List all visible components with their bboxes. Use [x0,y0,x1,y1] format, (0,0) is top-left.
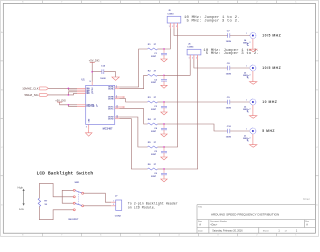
svg-text:1: 1 [246,33,247,35]
svg-text:1: 1 [246,100,247,102]
connector J7 CON2 [115,195,122,217]
svg-text:3: 3 [217,2,218,4]
svg-text:4: 4 [178,2,179,4]
svg-text:10MHZ_CLK: 10MHZ_CLK [22,87,38,91]
resistor R5 27 [148,142,158,148]
svg-text:OUTA: OUTA [108,87,114,90]
wire 10MHZ_CLK to INA [48,87,77,89]
junction row R2 [163,74,165,76]
wire OUTC- to R4 [119,109,147,124]
ground J1 [252,134,254,145]
ground C6 [163,175,165,179]
ground C3 [163,108,165,112]
net flag 5MHZ_SIG [24,93,48,97]
pin 6 OUTB [108,96,119,99]
no-connect OUTB [119,96,123,98]
capacitor C1 220P [151,49,167,58]
pin 2 J5 [173,23,175,28]
pin 1 J5 [169,23,171,28]
wire J5.3 to row5 [164,28,178,147]
pin 5 OUTB [108,97,119,100]
resistor R6 27 [148,164,158,170]
svg-text:1: 1 [189,58,190,60]
svg-text:5: 5 [116,97,117,99]
junction VCC/C14 [91,71,93,73]
svg-text:CON3: CON3 [167,13,174,15]
svg-text:MC3487: MC3487 [103,126,113,130]
ground J2 [252,105,254,116]
no-connect OUTC [119,106,123,108]
wire +5V to VCC pin [91,62,93,81]
svg-text:220P: 220P [151,154,157,156]
pin 1 J6 [189,55,191,60]
svg-text:CON3: CON3 [187,47,194,49]
capacitor C6 220P [151,169,167,178]
switch SW1 SW DPDT [68,182,83,221]
svg-text:10/5 MHZ: 10/5 MHZ [262,66,281,70]
svg-text:A: A [199,223,201,227]
svg-text:2: 2 [256,2,257,4]
junction row R5 [163,146,165,148]
annotation High/Low arrow [18,185,25,211]
capacitor C10 100N [226,126,232,139]
wire junction to INB [68,88,77,90]
capacitor C3 220P [151,102,167,111]
svg-text:SW1: SW1 [75,182,81,184]
svg-text:8: 8 [22,2,23,4]
wire 5MHZ_SIG to IND [48,93,77,95]
power +5V_DIG (control pins) [55,98,66,102]
resistor R7 1K [38,198,48,206]
pin 11 OUTC [108,107,119,110]
svg-text:<Doc>: <Doc> [210,224,218,227]
pin 9 INC [77,91,93,93]
wire R7 top to switch throw2 [39,183,73,198]
wire J6.2 to C8 [194,60,228,69]
svg-text:100N: 100N [226,41,232,43]
wire OUTD to R5 [119,117,147,147]
pin 14 OUTD [108,115,119,119]
svg-text:2: 2 [250,109,251,111]
note To 2-pin Backlight Header [128,202,178,210]
pin 13 OUTD [108,117,119,120]
connector J1 BNC [243,128,256,141]
pin 2 J7 [111,205,116,207]
svg-text:2: 2 [250,42,251,44]
svg-text:BNC: BNC [243,42,248,44]
wire R2 to junction [158,74,165,76]
svg-text:Low: Low [19,207,24,211]
svg-text:on LCD Module.: on LCD Module. [128,206,156,210]
wire OUTD- to R6 [119,119,147,169]
wire junction to INC [68,92,77,95]
svg-text:100N: 100N [226,136,232,138]
wire row3 to C9 [164,101,228,103]
svg-text:11: 11 [116,107,118,109]
junction row R4 [163,123,165,125]
wire throw1 tie [62,190,73,203]
svg-text:2: 2 [256,235,257,237]
svg-text:Sheet: Sheet [263,229,269,232]
note jumper J5 [184,15,240,23]
svg-text:1: 1 [246,66,247,68]
svg-text:1: 1 [295,2,296,4]
svg-text:7: 7 [61,2,62,4]
svg-text:100N: 100N [226,107,232,109]
connector J5 CON3 [167,10,181,23]
svg-text:10 MHZ: 10 MHZ [262,100,277,104]
junction row R1 [163,48,165,50]
svg-text:CON2: CON2 [115,215,122,217]
net flag 10MHZ_CLK [22,87,48,91]
wire J6.1 to row2 [164,60,190,76]
wire row4 to C10 [164,124,228,131]
junction input D [68,94,70,96]
ground C4 [163,130,165,134]
capacitor C7 100N [226,30,232,43]
wire junction to C/DCTRL [68,105,77,107]
wire OUTA- to R2 [119,75,147,88]
ground under U1 [88,129,90,133]
svg-text:100N: 100N [100,78,106,80]
pin 16 VCC [89,81,94,93]
wire R5 to junction [158,146,165,148]
svg-text:5 MHz: Jumper 3 to 2.: 5 MHz: Jumper 3 to 2. [206,51,259,56]
svg-text:16: 16 [89,81,91,83]
pin 4 A/BCTRL [77,103,97,106]
svg-text:1: 1 [295,235,296,237]
svg-text:220P: 220P [151,56,157,58]
pin 10 OUTC [108,106,119,109]
pin 2 OUTA [108,86,119,89]
power +5V_DIG (VCC) [89,59,100,63]
resistor R3 27 [148,97,158,103]
svg-text:220P: 220P [151,82,157,84]
connector J2 BNC [243,99,256,112]
wire R1 to junction [158,48,165,50]
resistor R2 27 [148,70,158,76]
svg-text:2: 2 [192,58,193,60]
svg-text:2: 2 [116,86,117,88]
ground C5 [163,153,165,157]
note jumper J6 [203,48,259,56]
wire R3 to junction [158,101,165,103]
svg-text:5MHZ_SIG: 5MHZ_SIG [24,93,38,97]
capacitor C14 100N [100,65,106,81]
ground C14 [112,77,119,80]
capacitor C8 100N [226,63,232,76]
title block [197,205,315,234]
svg-text:C/DCTRL: C/DCTRL [86,106,95,108]
ground J4 [252,39,254,50]
pin 1 INA [77,87,93,90]
wire R7 bottom to switch throw4 [39,207,73,220]
IC U1 MC3487 body [86,85,115,124]
svg-text:6: 6 [100,235,101,237]
svg-text:5: 5 [139,235,140,237]
svg-text:100N: 100N [226,73,232,75]
pin 12 C/DCTRL [77,106,98,108]
svg-text:High: High [18,185,24,189]
svg-text:220P: 220P [151,131,157,133]
wire junction to C14 [92,71,102,73]
svg-text:7: 7 [61,235,62,237]
svg-text:Date:: Date: [198,229,204,232]
svg-text:LCD Backlight Switch: LCD Backlight Switch [37,171,94,177]
wire OUTB- to R3 [119,99,147,102]
wire C9 to J2 [230,101,250,103]
svg-text:+5V_DIG: +5V_DIG [89,59,100,63]
svg-text:BNC: BNC [243,138,248,140]
svg-text:3: 3 [116,87,117,89]
wire pole1 to J7.1 [84,193,112,202]
wire C7 to J4 [230,35,250,37]
junction ctrl [68,104,70,106]
svg-text:1: 1 [246,129,247,131]
pin 3 J6 [197,55,199,60]
resistor R1 27 [148,44,158,50]
wire J6.3 to row6 [164,60,198,170]
capacitor C5 220P [151,147,167,156]
svg-text:220P: 220P [151,109,157,111]
svg-text:8: 8 [22,235,23,237]
connector J6 CON3 [187,43,201,54]
pin 3 J5 [177,23,179,28]
pin 2 J6 [193,55,195,60]
pin 15 IND [77,93,93,95]
svg-text:5 MHZ: 5 MHZ [262,129,275,133]
svg-text:Saturday, February 20, 2016: Saturday, February 20, 2016 [212,229,243,232]
junction row R3 [163,101,165,103]
svg-text:10/5 MHZ: 10/5 MHZ [262,34,281,38]
svg-text:13: 13 [116,117,118,119]
svg-text:OUTB: OUTB [108,98,114,100]
svg-text:220P: 220P [151,176,157,178]
pin 3 OUTA [108,87,119,90]
wire +5V_DIG to A/BCTRL [60,102,77,105]
wire R6 to junction [158,168,165,170]
pin 7 INB [77,90,93,92]
svg-text:KiCad: KiCad [303,198,310,201]
capacitor C9 100N [226,97,232,110]
svg-text:OUTC: OUTC [108,108,114,110]
svg-text:5 MHz: Jumper 3 to 2.: 5 MHz: Jumper 3 to 2. [187,18,240,23]
svg-text:12: 12 [96,106,98,108]
wire C8 to J3 [230,67,250,69]
svg-text:3: 3 [217,235,218,237]
svg-text:2: 2 [250,138,251,140]
capacitor C2 220P [151,75,167,84]
svg-text:5: 5 [139,2,140,4]
svg-text:10: 10 [116,106,118,108]
wire OUTA to R1 [119,49,147,87]
ground C1 [163,55,165,59]
svg-text:2: 2 [250,75,251,77]
svg-text:4: 4 [178,235,179,237]
junction row R6 [163,168,165,170]
svg-text:OUTD: OUTD [108,118,114,120]
svg-text:BNC: BNC [243,109,248,111]
connector J3 BNC [243,65,256,78]
resistor R4 27 [148,118,158,125]
pin 8 GND [86,118,91,129]
wire C10 to J1 [230,130,250,132]
wire C14 to ground [104,72,116,77]
svg-text:6: 6 [100,2,101,4]
wire pole2 to J7.2 [84,205,112,207]
junction input A [68,88,70,90]
pin 1 J7 [111,201,116,203]
ground C2 [163,81,165,85]
wire R4 to junction [158,123,165,125]
svg-text:ARDUINO SPEED FREQUENCY DISTRI: ARDUINO SPEED FREQUENCY DISTRIBUTION [211,213,279,217]
svg-text:1K: 1K [44,204,47,206]
wire J5.1 to row1 [164,28,170,49]
connector J4 BNC [243,33,256,46]
svg-text:SW DPDT: SW DPDT [68,219,79,221]
capacitor C4 220P [151,124,167,133]
ground J3 [252,71,254,82]
wire J5.2 to C7 [174,28,228,35]
svg-text:6: 6 [116,96,117,98]
svg-text:BNC: BNC [243,75,248,77]
